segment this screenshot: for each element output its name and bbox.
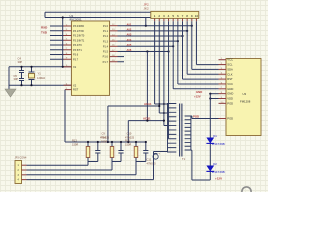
wire R13 C9 bottom join: [88, 161, 98, 163]
wire secondary tap to POD: [191, 116, 193, 119]
pin stub U1 P1.0: [110, 25, 118, 27]
wire to transformer tap1: [155, 103, 168, 105]
connector JP3 body: [15, 161, 22, 184]
wire transformer tap5: [154, 151, 168, 153]
wire U1 P1.0 to JP2 column: [118, 25, 192, 27]
svg-text:C11: C11: [147, 158, 152, 162]
junction +12V column: [209, 97, 211, 99]
wire POD to transformer: [192, 118, 219, 120]
connector JP2 header body: [151, 11, 199, 18]
pin stub U3 GND: [219, 88, 227, 90]
svg-text:A02: A02: [127, 27, 132, 31]
svg-text:POD: POD: [227, 101, 233, 105]
transformer T1 core: [179, 104, 181, 157]
junction ACB1 branch corner: [146, 120, 148, 122]
pin stub JP3 4: [22, 179, 27, 181]
pin stub U1 P3.4/T0: [64, 44, 72, 46]
svg-text:CLK: CLK: [227, 72, 232, 76]
resistor R15: [135, 142, 137, 147]
wire ACB1 riser: [127, 121, 129, 142]
transformer T1 primary winding: [168, 104, 177, 153]
svg-text:12MHz: 12MHz: [37, 76, 46, 80]
wire U3 GND: [210, 93, 218, 95]
wire JP2 pin 6 column: [177, 21, 179, 84]
svg-text:POD: POD: [193, 114, 199, 118]
pin stub U1 P3.6: [64, 54, 72, 56]
wire R14 C10 bottom join: [112, 161, 121, 163]
junction top rail: [62, 16, 64, 18]
svg-text:1: 1: [154, 14, 156, 18]
wire JP3 pin 3 riser: [135, 162, 137, 175]
svg-text:JP3 CON4: JP3 CON4: [15, 156, 28, 159]
svg-text:3: 3: [163, 14, 165, 18]
wire U1 P3.1/TXD: [50, 30, 64, 32]
wire RST down to RC bus: [64, 90, 66, 142]
svg-text:A01: A01: [127, 22, 132, 26]
svg-text:+12V: +12V: [194, 95, 201, 99]
svg-text:P3.4/T0: P3.4/T0: [73, 44, 82, 47]
junction tap1 crossing b: [163, 103, 165, 105]
svg-text:X2: X2: [73, 83, 77, 87]
wire ACA1 riser: [107, 106, 109, 142]
wire JP2 pin 5 column: [172, 21, 174, 89]
junction U1 P1.0 on column: [191, 25, 193, 27]
svg-text:150R: 150R: [125, 143, 131, 147]
junction Y1 bottom: [30, 84, 32, 86]
svg-text:C10: C10: [127, 132, 132, 136]
pin stub U1 P3.7: [64, 58, 72, 60]
pin stub JP3 3: [22, 174, 27, 176]
svg-text:VCC: VCC: [227, 82, 233, 86]
pin stub U1 P1.2: [110, 35, 118, 37]
wire to transformer tap4: [168, 137, 169, 139]
svg-text:ACA1: ACA1: [144, 102, 152, 106]
pin stub U3 VCC: [219, 59, 227, 61]
wire U1 P3.3/INT1: [50, 39, 64, 41]
wire U1 P3.7: [50, 58, 64, 60]
pin stub U1 P1.6: [110, 56, 118, 58]
pin stub U1 P1.7: [110, 61, 118, 63]
wire JP3 pin 2 riser: [111, 162, 113, 171]
pin stub U1 RST: [65, 89, 72, 91]
svg-text:RXD: RXD: [41, 26, 48, 30]
svg-text:4: 4: [168, 14, 170, 18]
svg-text:SCL: SCL: [227, 63, 233, 67]
junction GND column: [209, 93, 211, 95]
svg-text:P3.7: P3.7: [73, 58, 79, 61]
capacitor C5: [21, 76, 23, 79]
wire U1 P1.4 to JP2 column: [118, 45, 174, 47]
decorative: [242, 187, 251, 196]
pin stub JP3 1: [22, 164, 27, 166]
capacitor C12 polarized: [153, 154, 158, 159]
pin stub U1 P1.5: [110, 50, 118, 52]
junction U1 P1.1 on column: [186, 30, 188, 32]
pin stub U3 VCC: [219, 83, 227, 85]
resistor R13: [87, 142, 89, 147]
wire JP2 column to U3 pin row y74.3: [187, 73, 218, 75]
pin stub U1 P3.2/INT0: [64, 35, 72, 37]
junction U1 P1.2 on column: [181, 35, 183, 37]
svg-text:30P: 30P: [18, 60, 23, 64]
wire R15 C11 bottom join: [136, 161, 146, 163]
pin stub U1 P1.3: [110, 40, 118, 42]
capacitor C4: [21, 67, 23, 71]
wire JP3 pin4 riser to tap5: [153, 152, 155, 180]
svg-text:C5: C5: [14, 74, 18, 78]
capacitor C9: [97, 142, 99, 151]
junction P1.5 row ACB1 branch: [146, 50, 148, 52]
svg-text:ACB1: ACB1: [143, 116, 151, 120]
wire U1 P3.0/RXD: [50, 25, 64, 27]
wire JP3 pin 4: [27, 179, 154, 181]
pin stub JP2 9: [191, 18, 193, 21]
junction rail drop row1: [145, 25, 147, 27]
junction U1 P1.3 on column: [177, 40, 179, 42]
pin stub JP2 5: [172, 18, 174, 21]
wire diode chain vertical: [209, 94, 211, 180]
svg-text:P1.4: P1.4: [103, 45, 109, 48]
svg-text:P3.3/INT1: P3.3/INT1: [73, 39, 85, 42]
pin stub U3 POD2: [219, 118, 227, 120]
wire to transformer tap2: [159, 112, 167, 114]
svg-text:150R: 150R: [72, 143, 78, 147]
wire top rail lower: [45, 17, 152, 19]
svg-text:C4: C4: [18, 57, 22, 61]
pin stub JP3 2: [22, 169, 27, 171]
junction tap1 crossing: [158, 103, 160, 105]
junction ACA1 on column2: [158, 105, 160, 107]
svg-text:A03: A03: [127, 33, 132, 37]
svg-text:P3.6: P3.6: [73, 54, 79, 57]
svg-text:POD: POD: [227, 117, 233, 121]
pin stub U3 SDA: [219, 68, 227, 70]
svg-text:1N4733B: 1N4733B: [212, 170, 225, 174]
pin stub U1 P3.0/RXD: [64, 25, 72, 27]
pin stub JP2 10: [195, 18, 197, 21]
wire top rail left jog: [44, 12, 46, 17]
wire U1 P1.2 to JP2 column: [118, 35, 183, 37]
wire XTAL2 to crystal: [9, 84, 72, 86]
svg-text:TXD: TXD: [41, 30, 48, 34]
pin stub U1 P1.4: [110, 45, 118, 47]
pin stub U3 VDD: [219, 98, 227, 100]
svg-text:6: 6: [177, 14, 179, 18]
wire U1 P3.4/T0: [50, 44, 64, 46]
wire U1 P1.7 stub: [118, 61, 125, 63]
svg-text:A06: A06: [127, 48, 132, 52]
svg-text:P3.1/TXD: P3.1/TXD: [73, 30, 84, 33]
svg-text:SDA: SDA: [227, 67, 233, 71]
pin stub JP2 7: [182, 18, 184, 21]
junction ACA1 riser on bus: [107, 141, 109, 143]
svg-text:+12V: +12V: [215, 176, 222, 180]
ground symbol: [5, 89, 16, 97]
junction U1 P1.5 on column: [167, 50, 169, 52]
svg-text:JK2: JK2: [144, 7, 150, 11]
svg-text:A05: A05: [127, 43, 132, 47]
wire secondary top tap: [191, 115, 192, 117]
svg-text:C9: C9: [102, 132, 106, 136]
svg-text:FM1208: FM1208: [240, 100, 251, 104]
svg-text:RST: RST: [73, 88, 79, 92]
svg-text:47N025: 47N025: [125, 136, 135, 140]
wire U1 P1.1 to JP2 column: [118, 30, 188, 32]
pin stub U1 P3.1/TXD: [64, 30, 72, 32]
pin stub U3 RST: [219, 78, 227, 80]
svg-text:X1: X1: [73, 65, 77, 69]
wire U1 P1.6 stub: [118, 56, 125, 58]
pin stub U1 X1: [64, 66, 72, 68]
wire JP2 pin 1 column: [154, 21, 156, 104]
pin stub U3 POD: [219, 102, 227, 104]
capacitor C10: [120, 142, 122, 151]
junction ACB1 riser on bus: [127, 141, 129, 143]
svg-text:10: 10: [195, 14, 199, 18]
pin stub U3 GND: [219, 93, 227, 95]
wire bottom return to diodes: [192, 179, 210, 181]
svg-text:30P: 30P: [14, 77, 19, 81]
wire JP3 pin 2: [27, 169, 113, 171]
svg-text:P1.5: P1.5: [103, 51, 109, 54]
wire ground rail left: [8, 67, 10, 89]
wire JP2 column to U3 pin row y84.0: [178, 83, 219, 85]
svg-text:150R: 150R: [101, 140, 107, 144]
svg-text:D2: D2: [213, 162, 217, 166]
wire JP3 pin 1 riser: [87, 162, 89, 166]
svg-text:GND: GND: [196, 90, 202, 94]
svg-text:47N025: 47N025: [147, 161, 157, 165]
capacitor C11: [145, 142, 147, 151]
wire ACA1 horizontal: [108, 105, 159, 107]
wire JP3 pin 3: [27, 174, 137, 176]
zener diode D1 1N4733: [206, 138, 214, 144]
svg-text:P3.0/RXD: P3.0/RXD: [73, 25, 84, 28]
svg-text:P3.2/INT0: P3.2/INT0: [73, 35, 85, 38]
junction Y1 top: [30, 66, 32, 68]
pin stub JP2 2: [158, 18, 160, 21]
svg-text:P1.1: P1.1: [103, 30, 109, 33]
junction ACB1 on column3: [163, 120, 165, 122]
pin stub U1 P1.1: [110, 30, 118, 32]
svg-text:+: +: [158, 152, 160, 156]
pin stub U3 CLK: [219, 73, 227, 75]
wire U1 P3.6: [50, 54, 64, 56]
wire secondary bottom tap: [191, 149, 192, 151]
wire ACB1 horizontal: [128, 120, 164, 122]
wire U3 +12V: [210, 98, 218, 100]
svg-text:7: 7: [182, 14, 184, 18]
svg-text:Y1: Y1: [38, 72, 42, 76]
svg-text:VDD: VDD: [227, 97, 233, 101]
svg-text:R13: R13: [72, 139, 77, 143]
svg-text:P3.5/T1: P3.5/T1: [73, 49, 82, 52]
svg-text:P1.7: P1.7: [103, 60, 109, 64]
pin stub U1 P3.3/INT1: [64, 39, 72, 41]
wire JP2 column to U3 pin row y88.8: [173, 88, 218, 90]
svg-text:D1: D1: [213, 134, 217, 138]
svg-text:8: 8: [186, 14, 188, 18]
svg-text:P1.0: P1.0: [103, 25, 109, 28]
pin stub JP2 3: [163, 18, 165, 21]
IC U1 89C2051 body: [72, 21, 110, 95]
svg-text:RST: RST: [227, 77, 233, 81]
wire JP3 pin 1: [27, 164, 89, 166]
pin stub U1 P3.5/T1: [64, 49, 72, 51]
zener diode D2 1N4733: [206, 166, 214, 172]
svg-text:9: 9: [191, 14, 193, 18]
junction tap2 crossing: [163, 112, 165, 114]
wire to transformer tap3: [164, 125, 168, 127]
wire top rail upper: [45, 11, 152, 13]
junction C5 bottom: [20, 84, 22, 86]
pin stub U1 X2: [64, 84, 72, 86]
junction U1 P1.4 on column: [172, 45, 174, 47]
svg-text:U3: U3: [243, 92, 247, 96]
svg-text:P1.3: P1.3: [103, 40, 109, 43]
wire JP2 pin 4 column: [168, 21, 170, 138]
svg-text:GND: GND: [227, 87, 233, 91]
svg-text:2: 2: [158, 14, 160, 18]
junction XTAL1 wire: [62, 66, 64, 68]
wire RC top bus: [65, 141, 146, 143]
transformer T1 secondary winding: [185, 116, 191, 150]
wire U1 P3.2/INT0: [50, 35, 64, 37]
wire JP2 pin 9 column: [191, 21, 193, 69]
svg-text:47N025: 47N025: [100, 136, 110, 140]
svg-text:P1.6: P1.6: [103, 55, 109, 59]
wire JP2 pin 3 column: [163, 21, 165, 125]
wire P1.5 branch down to ACB1: [146, 51, 148, 120]
wire rail drop to row1: [145, 18, 147, 26]
svg-text:A04: A04: [127, 38, 132, 42]
svg-text:1N4733B: 1N4733B: [212, 142, 225, 146]
pin stub JP2 6: [177, 18, 179, 21]
wire JP2 column to U3 pin row y64.6: [196, 64, 218, 66]
resistor R14: [111, 142, 113, 147]
wire JP2 pin 8 column: [186, 21, 188, 74]
wire secondary bottom drop: [191, 150, 193, 180]
wire JP2 column to U3 pin row y79.1: [183, 78, 219, 80]
svg-text:VCC: VCC: [227, 58, 233, 62]
IC U3 FM1208 body: [226, 59, 261, 136]
pin stub JP2 4: [168, 18, 170, 21]
wire XTAL1 to crystal: [9, 66, 72, 68]
crystal Y1 12MHz: [31, 67, 33, 72]
pin stub JP2 8: [186, 18, 188, 21]
wire from top rail down to XTAL1: [62, 18, 64, 67]
wire U1 P1.5 to JP2 column: [118, 50, 169, 52]
junction C4 top: [20, 66, 22, 68]
pin stub U3 SCL: [219, 64, 227, 66]
wire JP2 pin 2 column: [158, 21, 160, 113]
wire JP2 column to U3 pin row y69.4: [192, 68, 219, 70]
svg-text:5: 5: [172, 14, 174, 18]
svg-text:P1.2: P1.2: [103, 35, 109, 38]
svg-text:GND: GND: [227, 92, 233, 96]
wire JP2 pin 10 column: [195, 21, 197, 64]
wire U1 P1.3 to JP2 column: [118, 40, 178, 42]
wire U1 P3.5/T1: [50, 49, 64, 51]
pin stub JP2 1: [154, 18, 156, 21]
wire JP2 pin 7 column: [182, 21, 184, 79]
